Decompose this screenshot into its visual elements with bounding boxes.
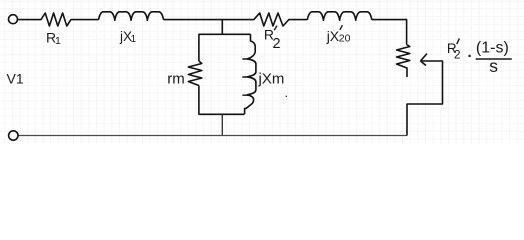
svg-text:2: 2 bbox=[454, 48, 461, 62]
svg-text:jX: jX bbox=[326, 28, 340, 44]
svg-text:rm: rm bbox=[167, 71, 185, 88]
svg-text:s: s bbox=[489, 56, 498, 76]
svg-text:1: 1 bbox=[131, 34, 137, 45]
svg-text:jXm: jXm bbox=[258, 71, 285, 88]
svg-text:1: 1 bbox=[55, 35, 61, 47]
svg-text:20: 20 bbox=[339, 33, 351, 45]
svg-text:(1-s): (1-s) bbox=[476, 40, 509, 57]
svg-text:2: 2 bbox=[273, 36, 281, 52]
svg-text:.: . bbox=[468, 44, 472, 61]
svg-text:V1: V1 bbox=[7, 71, 24, 87]
svg-text:.: . bbox=[285, 85, 289, 100]
